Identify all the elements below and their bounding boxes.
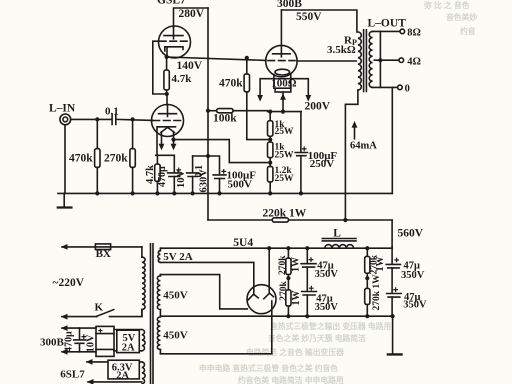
resistor 270k grid leak: [104, 119, 135, 193]
label box 5V 2A: [117, 330, 140, 353]
wire 6.3V lead bottom: [87, 379, 142, 384]
svg-text:4.7k: 4.7k: [145, 165, 156, 184]
svg-text:直热式三极管之输出 变压器 电路用: 直热式三极管之输出 变压器 电路用: [270, 321, 391, 331]
wire 64mA arrow: [352, 121, 358, 139]
svg-text:音色美妙: 音色美妙: [446, 12, 477, 22]
transformer PT core: [151, 244, 154, 384]
svg-text:L: L: [333, 227, 341, 239]
capacitor 47u 350V (left upper): [301, 248, 338, 291]
capacitor 470u 10V filament filter: [64, 328, 97, 352]
transformer OPT core: [364, 30, 367, 92]
svg-text:350V: 350V: [315, 269, 339, 280]
resistor 270k 1W (right upper): [365, 248, 386, 288]
transformer 6.3V 2A winding: [108, 362, 145, 384]
svg-text:BX: BX: [96, 248, 111, 260]
decorative bleed-through (not labeled further): [199, 0, 477, 384]
node B+ rail junction: [286, 246, 290, 250]
wire vertical B+ bus x=208: [207, 8, 209, 220]
wire 5U4 filament to B+: [268, 248, 270, 293]
ground stub PSU: [388, 316, 402, 354]
svg-text:450V: 450V: [163, 329, 188, 341]
transformer 5V 2A winding (5U4): [158, 248, 161, 262]
svg-text:1W: 1W: [291, 257, 302, 272]
svg-text:~220V: ~220V: [53, 277, 85, 289]
resistor 1k 25W (1): [268, 112, 295, 142]
transformer PT primary winding: [142, 247, 145, 317]
node CT bus junction: [365, 314, 369, 318]
svg-text:5V 2A: 5V 2A: [163, 251, 192, 263]
wire 100ohm center tap with up arrow: [280, 92, 286, 112]
svg-text:3.5kΩ: 3.5kΩ: [327, 44, 356, 56]
wire V1a grid loop to V1b plate: [153, 41, 167, 94]
node B+ rail junction: [305, 246, 309, 250]
op-amp/triode V1a 6SL7 upper (SRPP): [159, 26, 191, 58]
svg-text:25W: 25W: [275, 174, 295, 184]
wire input to grid: [71, 119, 154, 120]
svg-text:6SL7: 6SL7: [60, 369, 85, 381]
capacitor 47u 350V (left lower): [302, 286, 339, 316]
fuse BX: [61, 244, 142, 260]
node heater tap: [171, 138, 175, 142]
svg-text:300B: 300B: [277, 0, 302, 10]
svg-text:L–OUT: L–OUT: [368, 17, 407, 29]
svg-text:270k: 270k: [279, 280, 289, 300]
svg-text:550V: 550V: [296, 11, 322, 23]
wire 8 ohm tap: [373, 29, 405, 34]
svg-text:350V: 350V: [401, 270, 425, 281]
svg-text:450V: 450V: [163, 289, 188, 301]
svg-text:270k 1W: 270k 1W: [372, 274, 382, 311]
wire HV top to 5U4 plate: [160, 275, 247, 309]
svg-text:0: 0: [405, 83, 410, 94]
svg-text:350V: 350V: [315, 302, 339, 313]
wire 0 ohm tap: [373, 85, 403, 90]
wire HV center tap bus: [160, 310, 393, 317]
transformer 5V 2A winding (300B): [114, 330, 145, 351]
resistor 270k 1W (left upper): [278, 248, 301, 290]
capacitor 100uF 250V: [295, 112, 337, 194]
wire 4 ohm tap: [374, 58, 403, 63]
wire 6.3V lead top: [86, 359, 108, 365]
resistor 100ohm hum pot: [271, 78, 297, 92]
wire tap to 1k/1.2k junction: [174, 140, 268, 163]
svg-text:电路简洁 之音色 输出变压器: 电路简洁 之音色 输出变压器: [246, 347, 344, 357]
triode V1b 6SL7 lower: [152, 105, 184, 156]
svg-text:64mA: 64mA: [350, 140, 377, 151]
svg-text:270k: 270k: [278, 255, 288, 275]
wire cathode node line: [268, 111, 302, 113]
node ground bus junction: [172, 191, 176, 195]
node ground bus junction: [95, 191, 99, 195]
node 140V junction: [165, 55, 169, 59]
node B+ rail junction: [267, 246, 271, 250]
inductor L winding: [325, 245, 354, 249]
capacitor 47u 350V (right lower): [387, 288, 427, 316]
svg-text:8Ω: 8Ω: [407, 27, 421, 38]
resistor 4.7k (SRPP cathode): [164, 57, 192, 94]
svg-text:470k: 470k: [69, 153, 93, 165]
node cathode network top: [156, 154, 175, 156]
resistor 100k: [206, 109, 268, 125]
svg-text:5U4: 5U4: [233, 237, 253, 249]
connector input jack: [60, 114, 71, 125]
svg-text:约音: 约音: [460, 26, 476, 36]
resistor 4.7k cathode V1b: [145, 155, 160, 193]
svg-text:470k: 470k: [219, 78, 243, 90]
svg-text:4Ω: 4Ω: [407, 56, 421, 67]
wire 140V line to 300B grid: [167, 57, 266, 60]
heater lead arrows V1b: [159, 132, 177, 150]
resistor 470k feedback: [219, 56, 267, 140]
svg-text:25W: 25W: [275, 151, 295, 161]
svg-text:0.1: 0.1: [105, 106, 119, 118]
svg-text:弥 比 之 音色: 弥 比 之 音色: [424, 0, 470, 10]
svg-text:200V: 200V: [305, 101, 331, 113]
transformer OPT secondary winding: [369, 31, 372, 87]
resistor 270k 1W (right lower): [365, 274, 383, 316]
svg-text:470μ: 470μ: [157, 166, 168, 187]
transformer OPT primary winding: [358, 32, 361, 90]
node ground bus junction: [217, 191, 221, 195]
svg-text:220k 1W: 220k 1W: [263, 208, 307, 220]
node bus junction at 156: [206, 154, 210, 158]
resistor 220k 1W: [263, 208, 307, 223]
capacitor 100uF 500V: [213, 170, 256, 194]
ground: [58, 193, 72, 207]
resistor 1k 25W (2): [268, 142, 295, 166]
wire bridge - rail: [61, 349, 96, 355]
svg-text:300B: 300B: [40, 336, 65, 348]
wire bridge + rail: [61, 325, 96, 331]
capacitor 0.1 630V decoupling: [187, 156, 210, 193]
svg-text:音色之美 妙乃天籏 电路简洁: 音色之美 妙乃天籏 电路简洁: [268, 333, 366, 343]
node ground bus junction: [155, 191, 159, 195]
svg-text:280V: 280V: [179, 8, 205, 20]
svg-text:1W: 1W: [375, 257, 386, 272]
wire 5V winding bottom to 5U4: [160, 262, 253, 294]
inductor L choke core: [322, 239, 356, 241]
node ground bus junction: [299, 191, 303, 195]
svg-text:10V: 10V: [86, 334, 97, 353]
svg-text:L–IN: L–IN: [49, 103, 76, 115]
resistor 270k 1W (left lower): [279, 280, 302, 316]
svg-text:250V: 250V: [310, 158, 335, 170]
wire HV bottom to 5U4 plate2: [160, 301, 271, 354]
wire B+ filter rail: [160, 247, 392, 249]
node input junction 270k: [131, 117, 135, 121]
wire plate to OPT top: [281, 10, 357, 32]
node input junction 470k: [95, 117, 99, 121]
tube 5U4: [247, 285, 276, 314]
wire decoupling node: [193, 156, 220, 175]
node B+ rail junction: [365, 246, 369, 250]
switch K: [61, 302, 142, 320]
capacitor 470u 10V cathode bypass: [157, 155, 187, 193]
rectifier bridge 300B filament supply: [96, 326, 114, 356]
svg-text:140V: 140V: [177, 60, 203, 72]
wire 560V drop: [391, 220, 393, 247]
node ground bus junction: [268, 191, 272, 195]
wire 280V supply rail: [174, 8, 209, 28]
wire filament necks: [274, 75, 291, 89]
wire jack ground leg: [64, 126, 66, 194]
wire secondary tap bus: [379, 31, 381, 87]
node ground bus junction: [191, 191, 195, 195]
wire 220k line: [208, 219, 392, 221]
node CT bus junction: [305, 314, 309, 318]
label box 6.3V 2A: [108, 360, 139, 381]
svg-text:2A: 2A: [122, 343, 135, 354]
svg-text:1W: 1W: [291, 291, 302, 306]
wire 300B right to OPT primary: [297, 60, 356, 62]
svg-text:2A: 2A: [116, 371, 129, 382]
capacitor 0.1 coupling: [105, 106, 119, 125]
svg-text:500V: 500V: [228, 179, 253, 191]
svg-text:100k: 100k: [213, 112, 237, 124]
node ground bus junction: [131, 191, 135, 195]
svg-text:25W: 25W: [275, 127, 295, 137]
svg-text:GSL7: GSL7: [157, 0, 186, 7]
tube 300B: [266, 10, 297, 77]
svg-text:10V: 10V: [176, 170, 187, 189]
transformer HV winding 450V (2): [157, 317, 160, 354]
node V1b plate junction: [165, 92, 169, 96]
node CT bus junction: [286, 314, 290, 318]
wire OPT primary bottom to B+: [345, 90, 358, 220]
wire 0 tap to ground bus: [391, 87, 393, 193]
node CT bus corner: [391, 314, 395, 318]
capacitor 47u 350V (right upper): [386, 247, 425, 293]
svg-text:申申电路 直热式三极管 音色之美 约音色: 申申电路 直热式三极管 音色之美 约音色: [199, 363, 338, 373]
transformer HV winding 450V (1): [157, 275, 160, 310]
svg-text:K: K: [95, 302, 104, 314]
wire filament bracket with arrows: [257, 79, 311, 102]
svg-text:270k: 270k: [104, 153, 128, 165]
wire to V1b plate: [166, 94, 168, 105]
svg-text:350V: 350V: [403, 300, 427, 311]
svg-text:630V: 630V: [199, 169, 210, 193]
resistor 1.2k 25W: [268, 166, 295, 193]
svg-text:约音色美 电路简洁 申申电路用: 约音色美 电路简洁 申申电路用: [238, 375, 344, 384]
svg-text:4.7k: 4.7k: [172, 73, 193, 85]
svg-text:470μ: 470μ: [64, 331, 75, 352]
wire ground bus: [58, 192, 392, 194]
resistor 470k input: [69, 119, 100, 193]
svg-text:560V: 560V: [398, 227, 424, 239]
